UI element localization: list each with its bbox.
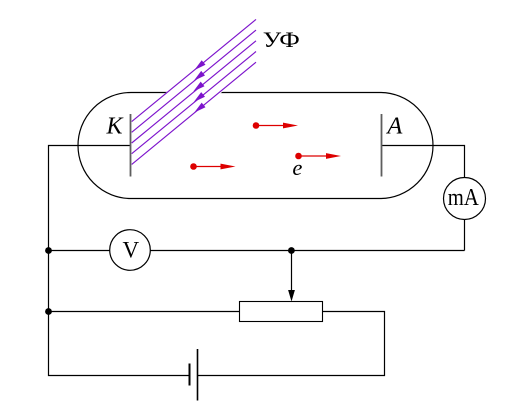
svg-text:mA: mA: [448, 185, 480, 211]
svg-text:K: K: [105, 113, 124, 139]
svg-text:УФ: УФ: [263, 27, 300, 52]
svg-text:V: V: [122, 238, 139, 263]
svg-text:e: e: [292, 155, 302, 180]
svg-text:A: A: [385, 112, 403, 139]
